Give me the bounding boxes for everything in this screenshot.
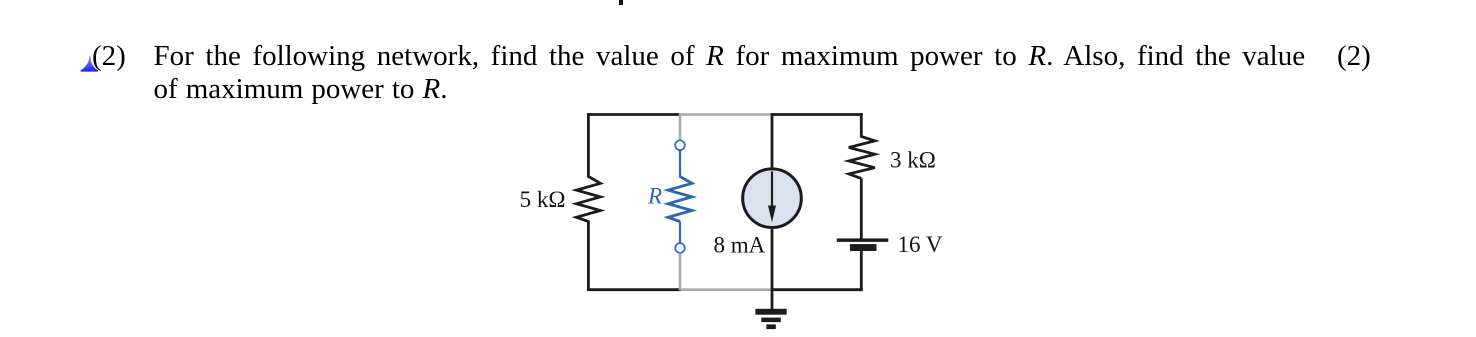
wire bottom rail middle segment (grey) <box>681 288 771 291</box>
wire top rail right segment <box>771 113 863 116</box>
wire current source branch upper <box>771 113 774 169</box>
svg-text:3 kΩ: 3 kΩ <box>890 148 936 173</box>
circuit schematic <box>480 95 980 337</box>
label 16 V <box>898 232 943 257</box>
ground symbol <box>755 309 786 329</box>
node terminal top <box>675 140 685 150</box>
svg-text:R: R <box>647 184 662 209</box>
wire right rail upper <box>860 113 863 137</box>
wire top rail middle segment (grey) <box>681 113 771 116</box>
wire top rail left segment <box>587 113 681 116</box>
resistor 3k zigzag <box>849 137 875 179</box>
label 8 mA <box>714 233 766 258</box>
current source I1 <box>743 169 802 228</box>
wire R branch blue upper <box>679 150 681 177</box>
label (2) left <box>92 40 126 73</box>
wire right rail lower <box>860 251 863 291</box>
wire R branch blue lower <box>679 222 681 244</box>
wire bottom rail right segment <box>771 288 863 291</box>
page tick mark <box>619 0 623 5</box>
svg-text:5 kΩ: 5 kΩ <box>520 187 566 212</box>
label 3 kOhm <box>890 148 936 173</box>
wire R branch top stub (grey) <box>679 113 682 141</box>
wire ground stub <box>771 290 774 310</box>
battery 16V <box>837 238 889 251</box>
wire bottom rail left segment <box>587 288 681 291</box>
problem text <box>154 40 1306 73</box>
svg-text:16 V: 16 V <box>898 232 943 257</box>
resistor R zigzag (blue) <box>668 177 692 222</box>
wire left rail lower <box>587 221 590 291</box>
wire left rail upper <box>587 113 590 177</box>
resistor 5k zigzag <box>576 177 600 222</box>
svg-text:8 mA: 8 mA <box>714 233 766 258</box>
blue annotation mark <box>80 56 100 73</box>
label R <box>647 184 662 209</box>
wire current source branch lower <box>771 228 774 290</box>
wire R branch bottom stub (grey) <box>679 253 682 291</box>
label (2) right <box>1337 40 1371 73</box>
node terminal bottom <box>675 243 685 253</box>
wire right rail middle <box>860 179 863 240</box>
label 5 kOhm <box>520 187 566 212</box>
